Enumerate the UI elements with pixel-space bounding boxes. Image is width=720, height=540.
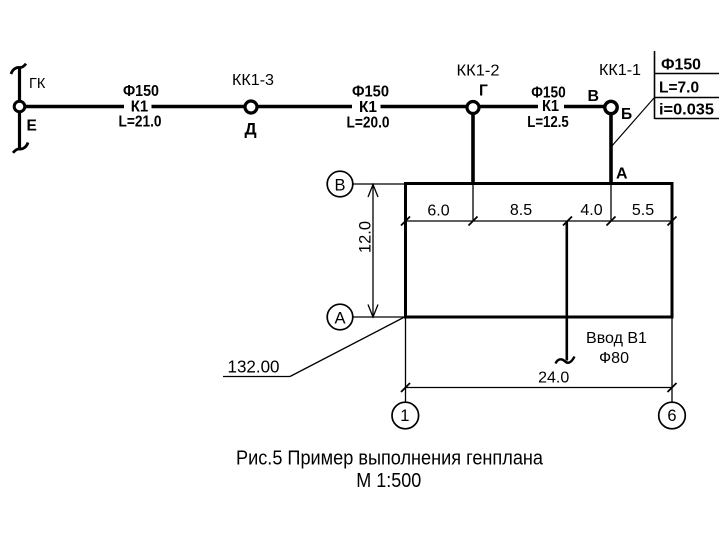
break squiggle at end of inlet (556, 357, 575, 364)
svg-text:А: А (616, 166, 628, 183)
svg-text:К1: К1 (542, 98, 559, 115)
break squiggle bottom of GK line (13, 143, 28, 153)
dimension tick at 611 (607, 217, 616, 226)
wire vertical pipe from KK1-2 to building (471, 107, 475, 183)
svg-text:В: В (588, 88, 600, 105)
svg-text:Ф80: Ф80 (599, 350, 629, 367)
dimension tick at 672 (668, 217, 677, 226)
leader line from table to pipe A-B (611, 98, 654, 147)
wire vertical pipe from KK1-1 through B to A (609, 107, 613, 183)
leader table rule under i=0.035 (655, 118, 720, 120)
dimension line inside building (406, 220, 673, 222)
wire thin continuation of A pipe into building (610, 183, 612, 221)
svg-text:Б: Б (621, 106, 632, 123)
svg-text:Ф150: Ф150 (352, 84, 389, 101)
svg-text:ГК: ГК (29, 76, 46, 92)
svg-text:КК1-3: КК1-3 (232, 72, 274, 89)
building outline (406, 184, 673, 318)
dimension tick bottom right (668, 383, 677, 392)
svg-text:КК1-1: КК1-1 (599, 62, 641, 79)
svg-text:Ф150: Ф150 (661, 57, 701, 74)
axis circle V (327, 171, 353, 197)
svg-text:L=20.0: L=20.0 (347, 115, 390, 132)
leader line elevation 132.00 horizontal part (223, 376, 290, 378)
wire main sewer pipe K1 horizontal (20, 105, 612, 109)
svg-text:Е: Е (27, 118, 37, 135)
dimension tick bottom left (401, 383, 410, 392)
svg-text:132.00: 132.00 (228, 357, 280, 377)
wire city network riser GK vertical (18, 68, 21, 149)
leader line elevation 132.00 diagonal part (290, 317, 406, 377)
svg-text:8.5: 8.5 (510, 202, 532, 219)
svg-text:К1: К1 (359, 99, 377, 116)
dimension tick at 473 (469, 217, 478, 226)
wire thin continuation of KK1-2 pipe into building (472, 183, 474, 221)
arrow up at top of 12.0 line (368, 185, 378, 198)
bottom dimension line 24.0 (406, 387, 673, 389)
svg-text:КК1-2: КК1-2 (457, 63, 500, 80)
svg-text:24.0: 24.0 (538, 370, 569, 387)
svg-text:Г: Г (479, 83, 488, 100)
svg-text:12.0: 12.0 (357, 221, 375, 253)
node well at GK connection point E (14, 101, 25, 112)
leader table rule under L=7.0 (655, 97, 720, 99)
svg-text:6.0: 6.0 (427, 203, 449, 220)
dimension tick at 568 (563, 217, 572, 226)
svg-text:i=0.035: i=0.035 (659, 102, 714, 119)
node well KK1-2 point G (467, 102, 479, 114)
axis line from circle A to building (353, 316, 406, 318)
axis line from circle V to building (353, 183, 406, 185)
dimension tick at 405 (401, 217, 410, 226)
vertical dimension line 12.0 (372, 184, 374, 317)
svg-text:Д: Д (244, 120, 256, 139)
extension line below building left (405, 318, 407, 402)
svg-text:L=21.0: L=21.0 (119, 114, 162, 131)
svg-text:L=12.5: L=12.5 (527, 114, 569, 131)
axis circle 6 (659, 402, 686, 429)
leader table vertical rule top right (654, 51, 656, 119)
svg-text:Ввод В1: Ввод В1 (586, 330, 647, 347)
svg-text:L=7.0: L=7.0 (659, 79, 699, 96)
axis circle 1 (392, 402, 419, 429)
svg-text:А: А (334, 310, 345, 328)
arrow down at bottom of 12.0 line (368, 305, 378, 318)
extension line below building right (671, 318, 673, 402)
svg-text:В: В (334, 177, 345, 195)
node well KK1-1 points V and B (605, 101, 617, 113)
svg-text:Ф150: Ф150 (123, 83, 159, 100)
wire water inlet Vvod V1 vertical (565, 221, 568, 361)
node well KK1-3 point D (245, 101, 257, 113)
svg-text:4.0: 4.0 (580, 202, 602, 219)
svg-text:М 1:500: М 1:500 (356, 469, 421, 492)
leader table rule under F150 (655, 73, 720, 75)
break squiggle top of GK line (11, 64, 26, 74)
svg-text:1: 1 (400, 407, 409, 425)
svg-text:5.5: 5.5 (632, 202, 654, 219)
axis circle A (327, 304, 353, 330)
svg-text:Рис.5 Пример выполнения генпла: Рис.5 Пример выполнения генплана (236, 447, 544, 470)
svg-text:6: 6 (667, 407, 676, 425)
